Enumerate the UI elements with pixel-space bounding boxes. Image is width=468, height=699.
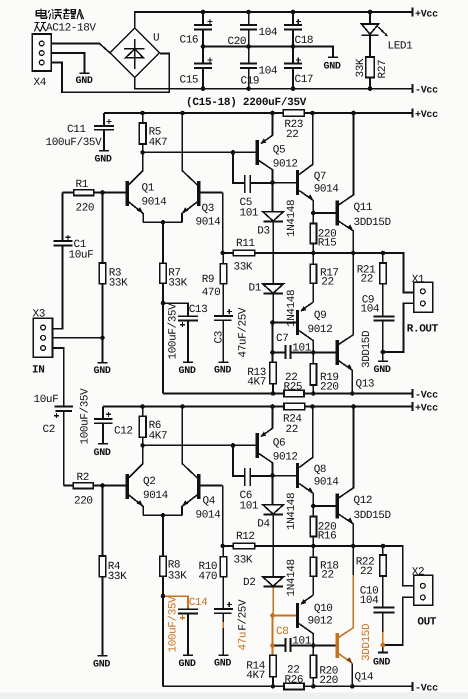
wire output line channel1 <box>255 253 414 293</box>
resistor R11 33K <box>223 193 256 274</box>
svg-text:Q7: Q7 <box>314 171 326 183</box>
capacitor C11 <box>46 113 115 150</box>
wire -Vcc rail channel1 <box>163 393 413 395</box>
ground GND (C4) <box>214 655 231 669</box>
svg-text:D3: D3 <box>257 226 269 238</box>
svg-text:Q5: Q5 <box>273 145 285 157</box>
svg-text:9012: 9012 <box>273 159 298 171</box>
svg-text:9014: 9014 <box>314 477 340 489</box>
svg-text:GND: GND <box>214 659 231 670</box>
svg-text:9014: 9014 <box>314 184 340 196</box>
transistor Q10 9012 <box>273 595 333 646</box>
resistor R4 33K <box>99 486 127 656</box>
svg-text:101: 101 <box>240 208 259 220</box>
resistor R20 220 <box>310 646 338 688</box>
capacitor C8 101 <box>273 626 314 652</box>
transistor Q7 9014 <box>273 113 340 213</box>
transistor Q1 9014 <box>126 152 168 222</box>
node top rail junctions <box>201 10 373 15</box>
svg-text:C20: C20 <box>228 36 247 48</box>
svg-text:F/25V: F/25V <box>238 599 250 631</box>
node R11 tap junction <box>220 251 225 256</box>
resistor R24 22 <box>283 403 305 436</box>
svg-text:1N4148: 1N4148 <box>286 200 298 237</box>
svg-text:100uF/35V: 100uF/35V <box>46 137 103 149</box>
svg-text:220: 220 <box>76 203 95 215</box>
node Q10 base junction <box>270 613 275 618</box>
svg-text:4K7: 4K7 <box>149 431 168 443</box>
wire emitter join channel1 <box>143 221 182 223</box>
svg-text:R1: R1 <box>76 179 89 191</box>
capacitor C7 101 <box>273 333 314 359</box>
ground GND (R4) <box>93 656 110 671</box>
resistor R9 470 <box>202 253 227 315</box>
svg-text:220: 220 <box>320 382 339 394</box>
svg-text:D4: D4 <box>257 519 270 531</box>
capacitor C5 101 <box>233 152 273 219</box>
svg-text:101: 101 <box>292 636 311 648</box>
capacitor C12 100uF/35V <box>80 388 133 445</box>
svg-text:GND: GND <box>373 658 390 669</box>
svg-text:C11: C11 <box>67 124 86 136</box>
svg-text:220: 220 <box>319 675 338 687</box>
svg-text:104: 104 <box>361 304 380 316</box>
node X2 pin2 junction <box>381 643 386 648</box>
svg-text:D2: D2 <box>243 577 255 589</box>
svg-text:33K: 33K <box>168 278 187 290</box>
transistor Q5 9012 <box>256 113 298 183</box>
diode D1 1N4148 <box>249 283 299 328</box>
svg-text:R2: R2 <box>77 472 89 484</box>
ground GND (filter mid) <box>324 57 341 72</box>
svg-text:100uF/35V: 100uF/35V <box>80 388 92 445</box>
svg-text:9014: 9014 <box>143 490 169 502</box>
capacitor C2 10uF <box>34 394 74 486</box>
node C13 tap <box>161 301 166 306</box>
wire Q5 base line <box>143 151 256 153</box>
resistor R21 22 <box>357 253 386 316</box>
capacitor C4 47uF/25V <box>214 599 250 655</box>
svg-text:101: 101 <box>240 501 259 513</box>
terminal -Vcc (channel2) <box>413 682 439 695</box>
svg-text:C16: C16 <box>180 35 199 47</box>
svg-text:C8: C8 <box>276 626 288 638</box>
svg-text:R.OUT: R.OUT <box>407 324 439 336</box>
svg-text:U: U <box>153 33 159 45</box>
terminal +Vcc (channel2) <box>413 402 439 415</box>
wire output line channel2 <box>255 546 414 586</box>
node -Vcc rail junctions <box>201 86 373 91</box>
connector X2 <box>385 575 433 645</box>
svg-text:Q2: Q2 <box>143 476 155 488</box>
svg-text:4K7: 4K7 <box>246 670 265 682</box>
wire bridge + to +Vcc rail (top rail) <box>135 12 413 28</box>
capacitor C18 <box>284 12 313 47</box>
svg-text:220: 220 <box>74 496 93 508</box>
node rail junctions ch2 bottom <box>271 684 355 689</box>
svg-text:R11: R11 <box>236 238 255 250</box>
connector X1 <box>385 282 433 352</box>
svg-text:AC12-18V: AC12-18V <box>46 23 96 35</box>
transistor Q14 3DD15D <box>313 575 374 686</box>
wire -Vcc rail channel2 <box>163 685 413 687</box>
svg-text:22: 22 <box>286 129 298 141</box>
svg-text:Q11: Q11 <box>354 202 373 214</box>
svg-text:C2: C2 <box>43 424 55 436</box>
svg-text:X4: X4 <box>34 77 47 89</box>
svg-text:GND: GND <box>95 155 112 166</box>
resistor R27 33K <box>355 57 389 89</box>
svg-text:3DD15D: 3DD15D <box>354 217 392 229</box>
capacitor C20 104 <box>228 12 278 48</box>
svg-text:GND: GND <box>374 365 391 376</box>
node rail2 junctions <box>140 404 356 409</box>
resistor R1 220 <box>63 179 126 215</box>
svg-text:GND: GND <box>94 448 111 459</box>
resistor R13 4K7 <box>247 323 276 394</box>
resistor R19 220 <box>310 353 339 394</box>
transistor Q12 3DD15D <box>313 407 391 547</box>
capacitor C13 100uF/35V <box>163 303 207 362</box>
resistor R22 22 <box>356 546 386 607</box>
svg-text:47uF/25V: 47uF/25V <box>238 307 250 357</box>
wire bias chain vertical ch2 <box>272 476 275 577</box>
svg-text:+Vcc: +Vcc <box>415 404 438 415</box>
svg-text:4K7: 4K7 <box>149 137 168 149</box>
wire emitter join channel2 <box>143 514 182 516</box>
svg-text:9014: 9014 <box>196 217 222 229</box>
svg-text:4K7: 4K7 <box>247 377 266 389</box>
terminal +Vcc (top) <box>413 8 439 21</box>
wire mid ground rail <box>203 47 333 57</box>
svg-text:101: 101 <box>292 343 311 355</box>
capacitor C6 101 <box>233 445 273 512</box>
svg-text:IN: IN <box>32 365 44 377</box>
svg-text:C15: C15 <box>180 75 199 87</box>
svg-text:R9: R9 <box>202 274 214 286</box>
resistor R18 22 <box>310 546 339 595</box>
node Q2 base junction <box>100 483 105 488</box>
svg-text:X1: X1 <box>412 274 425 286</box>
svg-text:Q9: Q9 <box>314 310 326 322</box>
capacitor C19 104 <box>240 47 278 89</box>
transistor Q4 9014 <box>182 407 223 522</box>
svg-text:Q13: Q13 <box>356 379 375 391</box>
diode D3 1N4148 <box>257 200 298 238</box>
capacitor C14 100uF/35V <box>165 596 208 655</box>
node emitter join <box>161 220 166 225</box>
svg-text:33K: 33K <box>108 571 127 583</box>
diode D2 1N4148 <box>243 559 298 596</box>
node Q7 base <box>270 180 275 185</box>
svg-text:X2: X2 <box>412 567 424 579</box>
node rail1 junctions <box>140 111 356 116</box>
transistor Q3 9014 <box>182 113 223 229</box>
svg-text:33K: 33K <box>355 58 367 77</box>
resistor R12 33K <box>223 486 255 567</box>
svg-text:470: 470 <box>202 287 221 299</box>
svg-text:10uF: 10uF <box>34 394 59 406</box>
wire Q14 collector upper <box>352 546 354 575</box>
node X1 pin2 junction <box>381 350 386 355</box>
resistor R17 22 <box>310 253 339 302</box>
svg-text:R12: R12 <box>236 531 255 543</box>
wire X4 pin2 to GND <box>51 53 84 73</box>
svg-text:GND: GND <box>94 366 111 377</box>
ground GND (C14) <box>179 655 196 670</box>
svg-text:22: 22 <box>286 424 298 436</box>
svg-text:9012: 9012 <box>308 616 333 628</box>
node C8 junctions <box>270 643 315 648</box>
terminal -Vcc (channel1) <box>413 389 439 402</box>
svg-text:GND: GND <box>179 366 196 377</box>
svg-text:33K: 33K <box>168 571 187 583</box>
svg-text:-Vcc: -Vcc <box>415 86 438 97</box>
svg-text:-Vcc: -Vcc <box>415 684 438 695</box>
svg-text:GND: GND <box>179 659 196 670</box>
svg-text:100uF/35V: 100uF/35V <box>168 303 180 360</box>
node mid rail junctions <box>201 44 296 49</box>
node Q6 base junctions <box>140 443 235 448</box>
svg-text:Q3: Q3 <box>202 203 214 215</box>
svg-text:33K: 33K <box>234 555 253 567</box>
resistor R6 4K7 <box>139 407 167 446</box>
transistor Q8 9014 <box>273 407 340 507</box>
label 电源输入 <box>36 9 83 20</box>
svg-text:3DD15D: 3DD15D <box>361 330 373 368</box>
svg-text:X3: X3 <box>33 309 45 321</box>
node C14 tap <box>161 594 166 599</box>
wire bias chain vertical <box>272 183 275 323</box>
svg-text:C18: C18 <box>295 35 314 47</box>
svg-text:+Vcc: +Vcc <box>415 10 438 21</box>
connector X4 <box>32 34 51 71</box>
svg-text:R15: R15 <box>318 238 337 250</box>
svg-text:3DD15D: 3DD15D <box>354 510 392 522</box>
node R12 tap junction <box>220 544 225 549</box>
resistor R7 33K <box>160 222 188 393</box>
resistor R14 4K7 <box>246 616 276 687</box>
svg-text:Q12: Q12 <box>354 495 373 507</box>
svg-text:D1: D1 <box>249 283 262 295</box>
svg-text:-Vcc: -Vcc <box>415 391 438 402</box>
svg-text:9014: 9014 <box>196 510 222 522</box>
svg-text:R26: R26 <box>285 675 304 687</box>
svg-text:+Vcc: +Vcc <box>415 110 438 121</box>
transistor Q13 3DD15D <box>313 253 374 394</box>
svg-text:Q1: Q1 <box>142 183 155 195</box>
svg-text:C14: C14 <box>189 597 208 609</box>
LED LED1 <box>362 12 414 57</box>
svg-text:Q14: Q14 <box>355 672 374 684</box>
svg-text:C13: C13 <box>189 304 208 316</box>
node output junctions ch2 <box>311 544 385 549</box>
resistor R3 33K <box>99 193 128 363</box>
svg-text:Q6: Q6 <box>273 438 285 450</box>
capacitor C1 10uF <box>53 193 94 329</box>
svg-text:C7: C7 <box>276 333 288 345</box>
resistor R8 33K <box>160 515 187 686</box>
capacitor C10 104 <box>360 586 395 653</box>
capacitor C15 <box>180 47 213 89</box>
wire +Vcc rail channel2 <box>103 406 413 408</box>
svg-text:LED1: LED1 <box>388 41 414 53</box>
capacitor C17 <box>284 47 313 89</box>
svg-text:470: 470 <box>199 571 218 583</box>
node C7 junctions <box>270 350 315 355</box>
svg-text:GND: GND <box>93 660 110 671</box>
resistor R10 470 <box>199 546 227 608</box>
terminal -Vcc (power) <box>413 84 439 96</box>
svg-text:GND: GND <box>324 62 341 73</box>
transistor Q11 3DD15D <box>313 113 391 253</box>
bridge rectifier U <box>110 28 160 78</box>
svg-text:104: 104 <box>360 595 379 607</box>
svg-text:3DD15D: 3DD15D <box>361 623 373 661</box>
resistor R23 22 <box>283 110 304 141</box>
node output junctions <box>311 251 385 256</box>
label 双AC12-18V <box>35 23 47 32</box>
wire +Vcc rail channel1 <box>104 112 413 114</box>
ground GND (C11) <box>95 151 112 166</box>
transistor Q2 9014 <box>126 445 169 515</box>
node Q7 emitter junction <box>311 211 316 216</box>
svg-text:R27: R27 <box>377 60 389 79</box>
svg-text:C3: C3 <box>214 331 226 343</box>
node emitter join ch2 <box>161 513 166 518</box>
node Q8 base <box>270 473 275 478</box>
svg-text:R25: R25 <box>284 382 303 394</box>
svg-text:22: 22 <box>321 277 333 289</box>
svg-text:C17: C17 <box>295 74 314 86</box>
svg-text:Q4: Q4 <box>203 496 216 508</box>
svg-text:C12: C12 <box>114 426 133 438</box>
svg-text:9014: 9014 <box>142 197 168 209</box>
ground GND (C12) <box>94 444 111 459</box>
capacitor C3 47uF/25V <box>214 307 250 362</box>
svg-text:1N4148: 1N4148 <box>286 493 298 530</box>
svg-text:GND: GND <box>76 76 93 87</box>
bottom scan strip <box>0 693 468 699</box>
svg-text:9012: 9012 <box>308 324 333 336</box>
node X3 pin2 junction <box>100 336 105 341</box>
svg-text:33K: 33K <box>234 262 253 274</box>
capacitor C9 104 <box>361 295 395 361</box>
node Q1 base junction <box>100 190 105 195</box>
svg-text:1N4148: 1N4148 <box>286 559 298 596</box>
resistor R16 220 <box>310 506 336 546</box>
resistor R5 4K7 <box>139 113 167 152</box>
svg-text:Q10: Q10 <box>314 603 333 615</box>
svg-text:22: 22 <box>321 570 333 582</box>
wire bridge - to -Vcc rail <box>135 77 413 88</box>
svg-text:Q8: Q8 <box>314 464 326 476</box>
svg-text:GND: GND <box>214 366 231 377</box>
resistor R15 220 <box>310 213 336 253</box>
wire X4 pin1 to bridge AC1 <box>51 44 110 53</box>
wire X4 pin3 to bridge AC2 <box>51 54 169 93</box>
ground GND (X4) <box>76 73 93 87</box>
svg-text:100uF/35V: 100uF/35V <box>168 596 180 653</box>
svg-text:22: 22 <box>361 274 373 286</box>
svg-text:104: 104 <box>259 27 278 39</box>
svg-text:9012: 9012 <box>273 452 298 464</box>
node Q9 base junction <box>270 320 275 325</box>
ground GND (C9) <box>374 361 391 376</box>
ground GND (C10) <box>373 653 390 669</box>
node rail junctions ch1 bottom <box>271 391 355 396</box>
ground GND (C13) <box>179 362 196 377</box>
svg-text:10uF: 10uF <box>69 250 94 262</box>
capacitor C16 <box>180 12 213 47</box>
wire Q6 base line <box>143 444 256 446</box>
svg-text:OUT: OUT <box>417 617 436 629</box>
resistor R2 220 <box>64 472 126 508</box>
svg-text:47u: 47u <box>238 632 250 651</box>
resistor R26 22 <box>284 665 304 690</box>
ground GND (R3) <box>94 363 111 377</box>
svg-text:(C15-18) 2200uF/35V: (C15-18) 2200uF/35V <box>186 97 307 109</box>
svg-text:R16: R16 <box>318 531 337 543</box>
connector X3 <box>33 318 102 406</box>
diode D4 1N4148 <box>257 493 298 531</box>
svg-text:33K: 33K <box>109 278 128 290</box>
node Q5 base junctions <box>140 150 235 155</box>
resistor R25 22 <box>284 372 305 397</box>
svg-text:C19: C19 <box>241 76 260 88</box>
svg-text:104: 104 <box>259 66 278 78</box>
terminal +Vcc (channel1) <box>413 109 439 122</box>
node Q8 emitter junction <box>311 504 316 509</box>
ground GND (C3) <box>214 362 231 376</box>
transistor Q9 9012 <box>273 302 333 353</box>
svg-text:22: 22 <box>360 566 372 578</box>
transistor Q6 9012 <box>256 407 298 476</box>
